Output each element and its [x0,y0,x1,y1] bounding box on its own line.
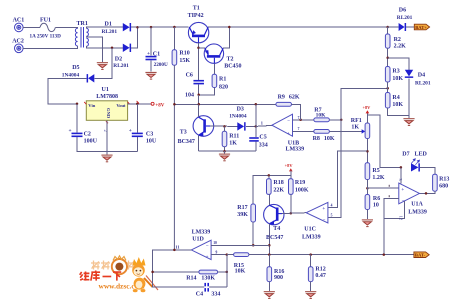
wire R11 bottom lead [224,147,226,152]
svg-text:1K: 1K [351,125,359,131]
flag BAT- [414,252,429,258]
resistor R2 [385,34,390,48]
svg-text:−: − [323,218,326,223]
junction C1 [150,26,153,29]
resistor R14 [199,270,218,274]
junction C3 Vout [136,103,139,106]
svg-text:LM339: LM339 [302,234,321,240]
svg-text:C4: C4 [196,292,203,298]
junction U1A out [425,192,428,195]
LED D7 [411,163,420,171]
svg-text:R10: R10 [179,51,189,57]
wire Vout to +8V [128,103,151,105]
wire TR1 center tap to ground [86,36,102,62]
wire D2 cathode up [131,27,138,48]
wire C1 to ground [150,60,152,71]
resistor R9 [276,102,292,106]
op-amp U1D [191,240,211,259]
svg-text:1N4004: 1N4004 [62,72,80,78]
svg-text:+: + [287,132,290,137]
svg-text:D3: D3 [237,107,244,113]
svg-text:+8V: +8V [362,105,371,110]
svg-text:10: 10 [373,202,379,208]
wire T3 emitter [198,136,200,152]
wire AC2 to TR1 [23,46,78,48]
junction C2 Vin [76,103,79,106]
resistor R11 [222,131,227,146]
wire R16 top lead [268,255,270,267]
junction R14 right [226,271,229,274]
resistor R13 [433,174,438,191]
wire rail to T1 [138,26,189,28]
resistor R4 [385,93,390,109]
junction R14 C4 node [226,253,229,256]
svg-text:+: + [69,128,72,134]
wire node to U1B output [256,125,272,126]
svg-text:AC1: AC1 [13,18,25,24]
wire R5 to R6 [366,180,368,195]
wire node down [226,255,228,288]
wire C2 top lead [76,104,78,133]
svg-text:BC547: BC547 [266,235,283,241]
svg-text:+: + [147,51,150,57]
transistor T3 [193,116,214,137]
wire divider to U1C minus [328,88,388,217]
pin tick U1A plus [388,185,390,187]
wire D4 to ground [408,78,410,115]
svg-text:BC450: BC450 [224,63,241,69]
svg-text:10K: 10K [316,113,327,119]
svg-text:D2: D2 [115,56,122,62]
transformer TR1 secondary winding upper [86,28,88,36]
wire fuse to TR1 [55,26,77,29]
wire C1 lead [150,27,152,55]
regulator U1 LM7808 [84,101,130,123]
svg-text:T4: T4 [273,226,280,232]
wire R7 to line B [329,119,341,121]
ground center tap [97,62,108,69]
svg-text:LM339: LM339 [286,147,305,153]
wire R14 right [218,271,227,273]
svg-text:RL201: RL201 [102,29,118,35]
wire R19 to base node [290,194,292,213]
svg-text:TR1: TR1 [77,21,88,27]
svg-text:334: 334 [211,292,220,298]
svg-text:1: 1 [261,120,263,125]
svg-text:104: 104 [185,92,194,98]
svg-text:C3: C3 [146,131,153,137]
junction R18 top [268,174,271,177]
svg-text:R2: R2 [394,37,401,43]
wire T2 base to R1 [213,63,215,74]
junction R10 line bottom [173,249,176,252]
svg-text:−: − [287,120,290,125]
svg-text:LED: LED [415,152,428,158]
junction C6 R1 [197,94,200,97]
svg-text:+8V: +8V [155,103,164,108]
wire C3 bottom lead [136,137,138,151]
svg-text:BAT-: BAT- [415,253,426,258]
svg-text:FU1: FU1 [40,18,51,24]
diode D1 [123,23,131,31]
diode D2 [123,44,131,52]
wire to U1A plus input [367,187,398,189]
potentiometer RF1 [365,123,370,139]
svg-text:R12: R12 [315,266,325,272]
svg-text:+: + [129,128,132,134]
junction R11 top [223,125,226,128]
svg-text:R5: R5 [372,168,379,174]
svg-text:7: 7 [298,127,300,131]
wire node to rail [255,104,257,126]
pin tick Vout [137,101,139,104]
svg-text:62K: 62K [289,94,300,100]
capacitor C2 [72,133,83,138]
svg-text:LM339: LM339 [192,229,211,235]
wire rail T1 to D6 [208,26,388,28]
junction rectifier out [136,26,139,29]
wire U1D plus input [211,254,227,256]
svg-text:100U: 100U [84,139,98,145]
svg-text:R13: R13 [439,176,449,182]
junction R2 top [386,26,389,29]
wire R13 to U1A out [420,191,435,193]
svg-text:334: 334 [259,142,268,148]
svg-text:R4: R4 [392,95,399,101]
resistor R15 [234,253,249,257]
wire V+ pin3 [400,167,402,183]
capacitor C5 [249,137,259,142]
terminal +8V [151,102,165,108]
svg-text:10K: 10K [324,136,335,142]
junction LED anode [400,166,403,169]
svg-text:D7: D7 [402,152,409,158]
wire BAT- rail [249,254,414,256]
junction R9 feedback [299,119,302,122]
svg-text:RL201: RL201 [397,15,413,21]
ground R12 [305,291,316,298]
ground D4 R4 [403,118,414,125]
resistor R3 [385,67,390,83]
wire R14 left [153,271,199,273]
svg-text:11: 11 [175,244,179,249]
svg-text:D6: D6 [399,7,406,13]
wire C6 bottom lead [198,84,200,94]
wire to output rail [198,95,200,105]
svg-text:GND: GND [106,108,111,119]
svg-text:C2: C2 [84,131,91,137]
transistor T4 [264,204,284,224]
svg-text:0.47: 0.47 [315,273,326,279]
svg-text:12: 12 [399,216,404,220]
resistor R6 [365,195,370,210]
wire R9 to minus input [292,104,301,120]
svg-text:R18: R18 [273,180,283,186]
svg-text:T3: T3 [180,129,187,135]
capacitor C3 [132,133,143,138]
wire ground rail U1 [77,137,137,151]
wire D5 anode to U1 Vin [48,78,87,104]
wire C5 bottom lead [255,142,257,152]
svg-text:D5: D5 [72,65,79,71]
svg-text:U1: U1 [102,87,109,93]
wire supply rail to R17 [253,175,291,204]
wire R1 bottom to C6 [199,88,215,95]
wire R4 to ground [388,108,409,116]
wire AC1 to fuse [23,26,40,28]
wire U1D output loop [153,250,227,287]
svg-text:BC347: BC347 [178,139,195,145]
svg-text:R1: R1 [219,76,226,82]
wire U1B output net [174,103,276,105]
power +8V RF1 [362,105,371,113]
resistor R19 [289,179,294,195]
transformer TR1 primary winding [75,28,77,46]
diode D3 [237,122,245,130]
resistor R7 [314,118,330,122]
diode D4 [405,70,413,78]
svg-text:RF1: RF1 [351,118,362,124]
svg-text:+: + [206,256,209,261]
svg-text:R6: R6 [373,196,380,202]
junction U1B out node [255,125,257,128]
ground R6 [362,219,373,226]
junction R5 R6 [366,187,369,190]
svg-text:LM7808: LM7808 [96,94,118,100]
svg-text:10: 10 [213,241,217,245]
junction R10 line [173,103,176,106]
svg-text:T1: T1 [193,5,200,11]
svg-text:R9: R9 [278,94,285,100]
junction emitter U1D [268,244,271,247]
wire LED to R13 [420,167,435,174]
svg-text:R16: R16 [274,269,284,275]
resistor R5 [365,163,370,180]
diode D6 [399,23,407,31]
wire C5 top lead [255,126,257,137]
transformer TR1 secondary winding lower [86,38,88,46]
svg-text:9: 9 [216,250,218,254]
wire R18 top lead [268,175,270,178]
svg-text:+8V: +8V [285,163,294,168]
svg-text:100K: 100K [295,188,309,194]
wire to D4 [388,58,409,70]
wire T1 base line [198,43,200,80]
wire T2 collector to rail [223,27,229,48]
wire +8V to R19 [290,171,292,179]
wire R10 to U1D output [173,65,175,250]
junction R17 U1D [252,244,255,247]
wire to D5 cathode [95,48,113,79]
junction U1A sense [383,253,386,256]
watermark dzsc logo [80,256,158,292]
junction T2 collector rail [228,26,231,29]
wire R12 to ground [310,282,312,291]
wire C3 top lead [136,104,138,133]
resistor R18 [267,179,272,195]
svg-text:10K: 10K [392,102,403,108]
wire R2 top lead [387,27,389,34]
svg-text:22K: 22K [273,188,284,194]
svg-text:2200U: 2200U [154,62,168,68]
svg-text:130K: 130K [201,276,215,282]
svg-text:Vin: Vin [88,103,95,108]
junction R7 lineB [340,119,343,122]
resistor R12 [308,267,313,282]
svg-text:10K: 10K [235,269,246,275]
svg-text:Vout: Vout [116,103,126,108]
junction T3 collector [198,103,201,106]
svg-text:LM339: LM339 [408,209,427,215]
svg-text:820: 820 [219,84,228,90]
svg-text:U1A: U1A [411,201,423,207]
junction D2 anode [111,47,114,50]
svg-text:1N4004: 1N4004 [229,113,247,119]
wire to R15 [227,254,234,256]
svg-text:+: + [322,207,325,212]
junction R16 [268,253,271,256]
resistor R17 [251,204,256,222]
ground U1 [101,155,112,162]
svg-text:C1: C1 [153,51,160,57]
wire GND pin [106,120,108,151]
svg-text:5: 5 [331,213,333,217]
wire U1A minus to BAT- rail [384,199,399,255]
ground T3 [219,154,230,161]
wire gnd stub2 [224,151,226,153]
resistor R8 [314,130,330,134]
svg-text:2.2K: 2.2K [394,44,407,50]
op-amp U1C [306,202,328,223]
transistor T1 [188,22,208,42]
ground R16 [264,291,275,298]
pin tick U1A minus [388,195,390,197]
LED arrows D7 [411,159,419,165]
resistor R1 [212,74,217,87]
wire D3 cathode [246,125,256,127]
wire R16 to ground [268,282,270,291]
svg-text:U1D: U1D [192,237,204,243]
svg-text:+: + [401,188,404,193]
resistor R16 [267,267,272,282]
svg-text:RL201: RL201 [113,63,129,69]
wire U1D minus input [211,244,269,246]
wire TR1 top tap to D1 [86,27,122,28]
svg-text:10K: 10K [392,76,403,82]
svg-text:AC2: AC2 [12,39,24,45]
junction R10 top [173,26,176,29]
junction D4 branch [386,57,389,60]
wire T3 base to D3 [210,125,237,127]
wire D6 to BAT+ [406,26,414,28]
resistor R10 [172,50,177,65]
junction R12 [309,253,312,256]
svg-text:4: 4 [331,204,333,208]
svg-text:R19: R19 [295,180,305,186]
svg-text:10U: 10U [146,139,157,145]
wire R8 to RF1 wiper [329,130,361,132]
svg-text:D1: D1 [105,21,112,27]
wire R12 top lead [310,255,312,267]
wire R2 to R3 [387,48,389,66]
svg-text:U1B: U1B [288,140,299,146]
wire D1 cathode [131,26,138,28]
wire R17 bottom [252,222,254,245]
svg-text:T2: T2 [227,56,234,62]
svg-text:39K: 39K [237,212,248,218]
transformer TR1 core [81,27,83,48]
capacitor C1 [146,56,157,61]
svg-text:900: 900 [274,275,283,281]
wiper arrow RF1 [362,129,366,133]
diode D5 [87,74,95,82]
wire R3 to R4 [387,82,389,93]
svg-text:U1C: U1C [304,226,316,232]
svg-text:R17: R17 [237,205,247,211]
junction T2 emitter [197,47,200,50]
wire T3 ground rail [199,150,256,152]
wire RF1 top lead [366,113,368,123]
svg-text:1A 250V 113D: 1A 250V 113D [30,33,62,39]
junction R3 R4 [386,87,389,90]
connector AC2 [14,44,23,53]
wire U1B minus input [293,119,314,121]
svg-text:−: − [206,244,209,249]
wire R10 top lead [173,27,175,50]
wire TR1 bottom tap to D2 [86,46,122,48]
svg-text:D4: D4 [418,73,425,79]
svg-text:R11: R11 [229,133,239,139]
svg-text:3: 3 [398,179,403,181]
wire gnd stub [106,152,108,155]
svg-text:C5: C5 [259,134,266,140]
ground C1 [145,72,156,79]
svg-text:680: 680 [439,183,448,189]
connector AC1 [14,23,23,32]
junction T4 base [290,212,293,215]
capacitor C6 [193,80,204,85]
svg-text:R8: R8 [313,136,320,142]
wire gnd stub3 [408,116,410,119]
svg-text:15K: 15K [179,58,190,64]
wire base to U1C out [282,212,306,215]
capacitor C4 [204,283,209,292]
svg-text:7: 7 [298,116,300,120]
svg-text:BAT+: BAT+ [415,25,427,30]
svg-text:1K: 1K [229,140,237,146]
wire rail to D6 [388,26,399,28]
wire R11 top lead [224,126,226,131]
wire T3 collector [198,104,200,117]
svg-text:R14: R14 [186,276,196,282]
op-amp U1B [272,114,293,136]
wire to U1C plus input [328,151,368,207]
wire T4 emitter down [268,224,270,255]
junction gnd rail [223,150,226,153]
svg-text:TIP42: TIP42 [188,13,204,19]
svg-text:RL201: RL201 [415,80,431,86]
transistor T2 [204,44,223,63]
wire T2 emitter stub [199,47,205,49]
junction R14 left [151,271,154,274]
svg-text:C6: C6 [186,73,193,79]
wire pin12 ground [384,201,405,218]
flag BAT+ [414,24,429,30]
wire +8V to LED anode [367,115,401,167]
wire C4 gap mask [204,286,209,288]
wire RF1 bottom to R5 [366,139,368,163]
svg-text:1.2K: 1.2K [372,175,385,181]
